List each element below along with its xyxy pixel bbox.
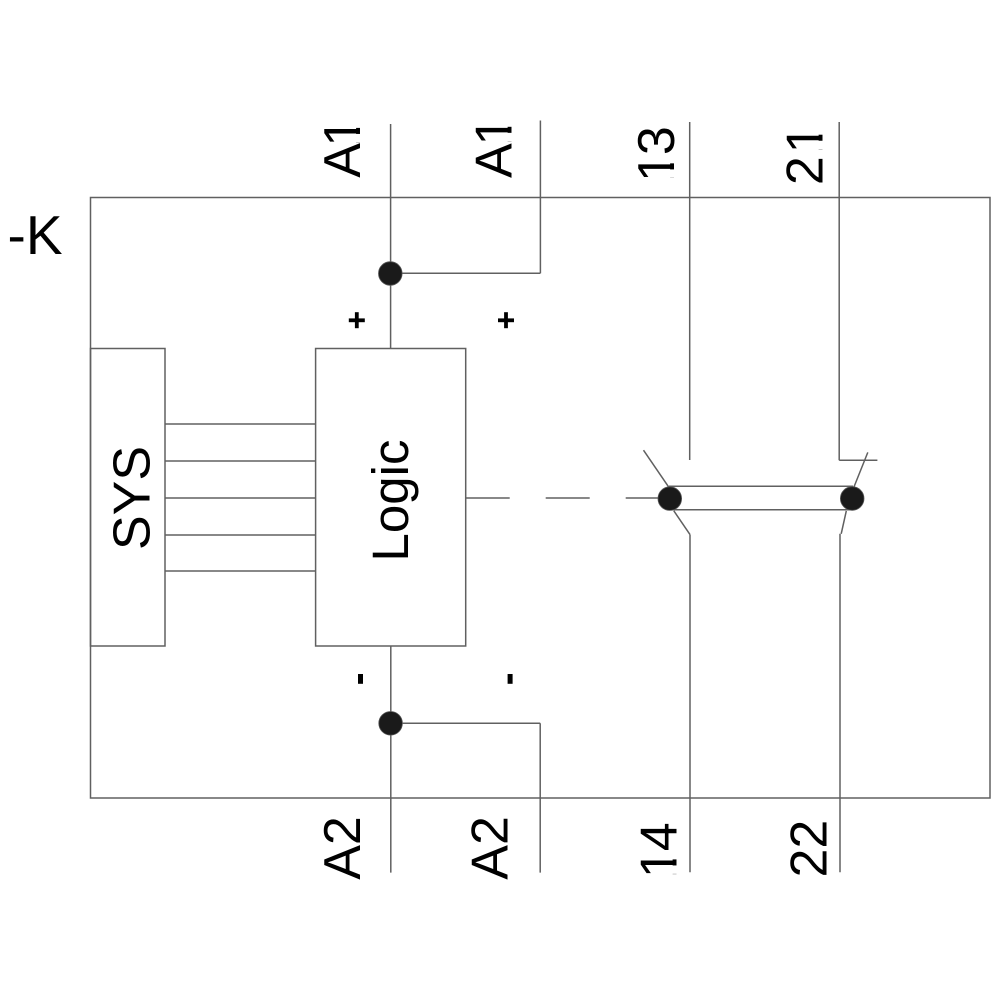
- polarity plus right: [498, 312, 514, 328]
- wire A2 coil terminal: [390, 646, 392, 873]
- contact point dot right: [840, 487, 864, 511]
- svg-text:A2: A2: [462, 816, 520, 880]
- wire terminal 14: [689, 535, 691, 873]
- wire A2 second terminal vertical: [539, 723, 541, 872]
- svg-text:1: 1: [631, 849, 689, 878]
- wire A1 second terminal vertical: [539, 121, 541, 274]
- contact bridge bar bottom line: [669, 509, 853, 511]
- wire SYS-Logic bus line 1: [165, 423, 316, 425]
- contact point dot left: [658, 487, 682, 511]
- contact K2 NC actuator diagonal: [853, 452, 868, 488]
- wire terminal 14 lower diagonal: [674, 511, 690, 535]
- contact K1 NO actuator diagonal: [644, 450, 670, 489]
- wire SYS-Logic bus line 5: [165, 570, 316, 572]
- svg-text:A: A: [466, 143, 524, 178]
- polarity minus right: [508, 674, 513, 684]
- wire A1 second terminal horizontal: [391, 272, 541, 274]
- wire SYS-Logic bus line 3: [165, 497, 316, 499]
- svg-text:3: 3: [628, 126, 686, 155]
- polarity plus left: [349, 312, 365, 328]
- svg-text:A2: A2: [314, 816, 372, 880]
- svg-text:2: 2: [777, 156, 835, 185]
- wire SYS-Logic bus line 4: [165, 534, 316, 536]
- mechanical linkage dashed line: [466, 497, 658, 499]
- contact bridge bar top line: [669, 485, 853, 487]
- svg-text:1: 1: [466, 117, 524, 146]
- wire A1 coil terminal: [390, 124, 392, 349]
- svg-text:4: 4: [631, 822, 689, 851]
- node A2 junction dot: [379, 712, 403, 736]
- wire terminal 13: [689, 122, 691, 460]
- label A1 first: [314, 118, 372, 178]
- svg-text:A: A: [314, 143, 372, 178]
- svg-text:1: 1: [628, 153, 686, 182]
- SYS box: [91, 349, 166, 647]
- svg-text:22: 22: [781, 820, 839, 878]
- wire terminal 22 lower diagonal: [841, 511, 846, 534]
- outer box -K: [91, 198, 991, 799]
- label 14: [631, 822, 689, 878]
- wire SYS-Logic bus line 2: [165, 460, 316, 462]
- svg-text:1: 1: [777, 124, 835, 153]
- label 21: [777, 124, 835, 185]
- svg-text:1: 1: [314, 118, 372, 147]
- Logic box U1: [316, 349, 466, 647]
- wire terminal 22: [839, 534, 841, 873]
- label 13: [628, 126, 686, 182]
- contact K2 NC tick: [839, 459, 877, 461]
- node A1 junction dot: [379, 262, 403, 286]
- label A1 second: [466, 117, 524, 178]
- wire terminal 21: [838, 122, 840, 460]
- svg-text:SYS: SYS: [104, 446, 162, 550]
- svg-text:Logic: Logic: [362, 440, 419, 562]
- wire A2 second terminal horizontal: [391, 722, 540, 724]
- svg-text:-K: -K: [8, 204, 63, 266]
- polarity minus left: [358, 674, 363, 684]
